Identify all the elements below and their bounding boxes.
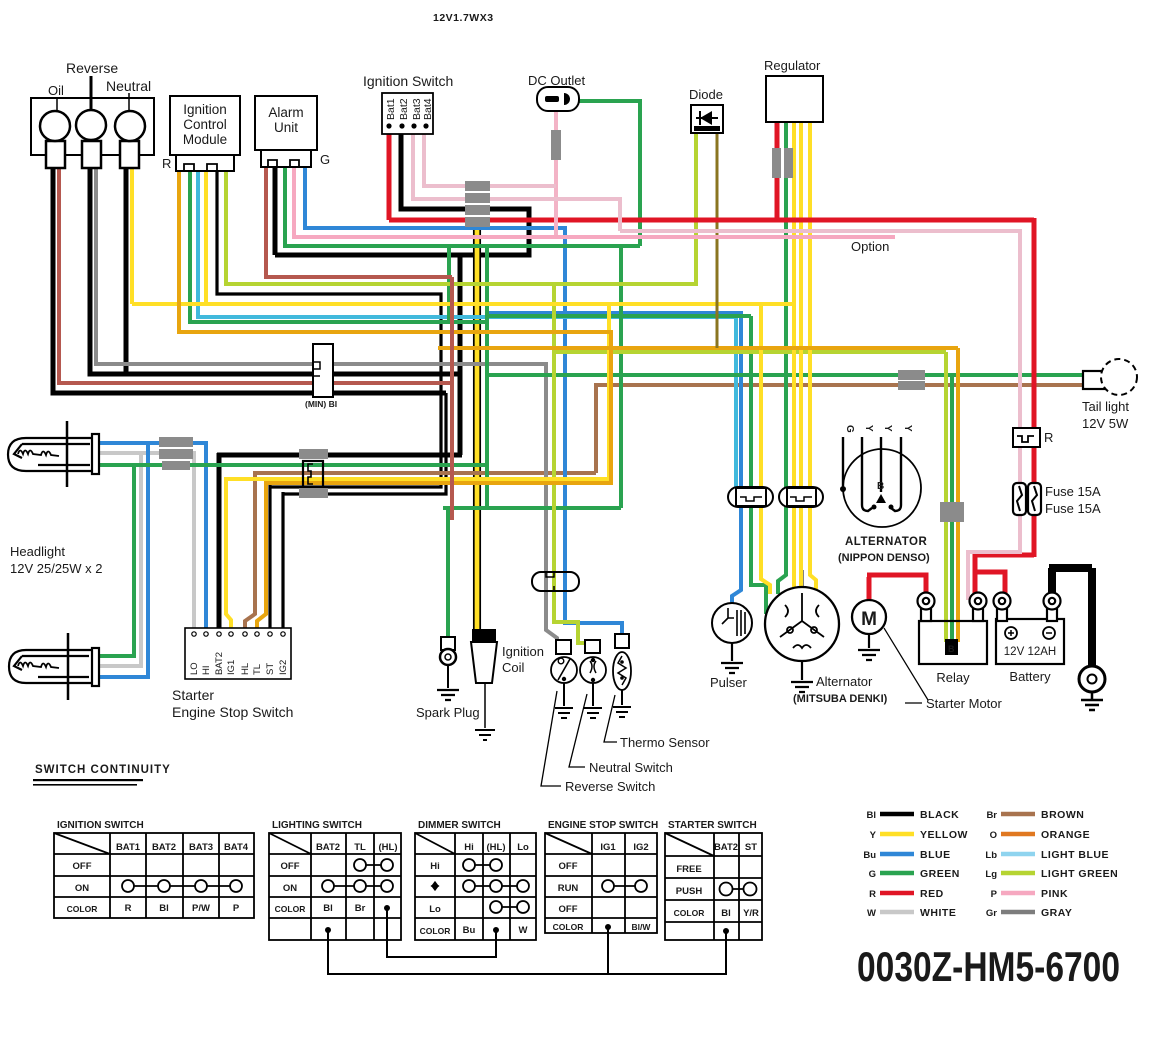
wire green branch to relay	[950, 375, 954, 652]
wire white headlight to LO pin	[97, 451, 194, 666]
svg-text:G: G	[869, 869, 876, 880]
svg-text:Bat1: Bat1	[385, 98, 397, 120]
svg-text:Hi: Hi	[464, 842, 474, 853]
ground mitsuba	[791, 661, 813, 692]
svg-text:(HL): (HL)	[487, 842, 506, 853]
svg-text:W: W	[867, 908, 876, 919]
neutral lamp	[120, 141, 139, 168]
connector gray stack on ignition switch lines	[465, 181, 490, 191]
svg-text:O: O	[990, 830, 997, 841]
battery	[996, 619, 1064, 664]
starter motor	[852, 600, 886, 634]
wire gray reverse-indicator to reverse switch	[96, 166, 557, 648]
wire green ignition-control-module x487	[190, 172, 487, 508]
wire light-green y350 to relay	[554, 352, 946, 642]
wire blue vertical x565 to thermo area	[565, 226, 622, 640]
svg-text:FREE: FREE	[676, 864, 701, 875]
svg-text:GREEN: GREEN	[920, 868, 960, 880]
wire yellow neutral-indicator and icm y304 main	[132, 166, 794, 304]
wire green x449 y316 to connector1	[449, 244, 766, 614]
starter engine stop switch connector	[185, 628, 291, 679]
wire dark-yellow icm y332 U to TL	[179, 172, 611, 628]
svg-text:IG2: IG2	[633, 842, 648, 853]
svg-text:12V 12AH: 12V 12AH	[1004, 646, 1056, 658]
svg-text:Bl: Bl	[721, 908, 731, 919]
svg-text:Bl: Bl	[323, 903, 333, 914]
neutral switch device	[585, 640, 600, 653]
svg-text:W: W	[519, 925, 528, 936]
svg-text:Fuse 15A: Fuse 15A	[1045, 484, 1101, 499]
svg-text:ENGINE STOP SWITCH: ENGINE STOP SWITCH	[548, 820, 658, 831]
svg-text:Lb: Lb	[985, 850, 997, 861]
svg-text:IG1: IG1	[600, 842, 616, 853]
svg-text:COLOR: COLOR	[553, 922, 584, 932]
leader neutral switch	[569, 694, 587, 767]
oil lamp	[46, 141, 65, 168]
svg-text:DIMMER SWITCH: DIMMER SWITCH	[418, 820, 501, 831]
svg-text:COLOR: COLOR	[67, 904, 98, 914]
svg-text:Lg: Lg	[985, 869, 997, 880]
svg-text:OFF: OFF	[559, 904, 578, 915]
svg-text:BAT2: BAT2	[152, 842, 176, 853]
svg-text:Bu: Bu	[863, 850, 876, 861]
svg-text:P/W: P/W	[192, 903, 210, 914]
svg-text:Bl: Bl	[867, 810, 877, 821]
pulser	[712, 603, 752, 643]
wire black ignition-control-module to ST thin	[217, 172, 441, 628]
svg-text:PINK: PINK	[1041, 888, 1068, 900]
ground pulser	[721, 643, 743, 673]
wire olive diode right leg	[716, 133, 719, 348]
fuse 15A upper	[1013, 483, 1026, 515]
svg-text:ST: ST	[745, 842, 757, 853]
thermo sensor device	[615, 634, 629, 648]
svg-text:B: B	[877, 481, 884, 492]
svg-text:Neutral: Neutral	[106, 78, 151, 94]
connector white pill on gray-lgreen-blue cluster	[532, 572, 579, 591]
ground starter motor	[858, 634, 880, 660]
svg-text:R: R	[869, 889, 876, 900]
svg-text:WHITE: WHITE	[920, 907, 956, 919]
svg-text:Alternator: Alternator	[816, 674, 873, 689]
svg-text:OFF: OFF	[559, 861, 578, 872]
svg-text:PUSH: PUSH	[676, 886, 703, 897]
svg-text:Lo: Lo	[429, 904, 441, 915]
svg-text:Br: Br	[986, 810, 997, 821]
svg-text:RED: RED	[920, 888, 944, 900]
svg-text:BAT4: BAT4	[224, 842, 249, 853]
svg-text:Gr: Gr	[986, 908, 997, 919]
wire black ignition-switch BAT2 thick	[275, 132, 529, 455]
wire green tail light y375	[487, 373, 1083, 377]
svg-text:Module: Module	[183, 132, 227, 147]
tail light	[1083, 371, 1105, 389]
svg-text:Lo: Lo	[517, 842, 529, 853]
svg-text:Fuse 15A: Fuse 15A	[1045, 501, 1101, 516]
svg-text:Bat4: Bat4	[422, 98, 434, 120]
svg-text:YELLOW: YELLOW	[920, 829, 968, 841]
connector white pill 2	[779, 487, 823, 507]
svg-text:TL: TL	[354, 842, 366, 853]
svg-text:B: B	[948, 644, 955, 654]
svg-text:COLOR: COLOR	[674, 908, 705, 918]
legend column 2	[985, 810, 997, 919]
connector gray on tail light brown	[898, 381, 925, 390]
svg-text:OFF: OFF	[281, 861, 300, 872]
svg-text:12V 5W: 12V 5W	[1082, 416, 1129, 431]
svg-text:Y: Y	[870, 830, 877, 841]
svg-text:Y/R: Y/R	[743, 908, 759, 919]
svg-text:Alarm: Alarm	[268, 105, 303, 120]
svg-text:P: P	[991, 889, 998, 900]
svg-text:Ignition: Ignition	[183, 102, 227, 117]
connector gray pair with white box on y455 y473	[299, 449, 328, 459]
wire black oil-indicator via y393 to IG2	[53, 166, 446, 393]
svg-text:Tail light: Tail light	[1082, 399, 1129, 414]
svg-text:Y: Y	[882, 425, 893, 432]
relay terminals	[918, 593, 987, 622]
svg-text:Oil: Oil	[48, 83, 64, 98]
relay	[919, 621, 987, 664]
leader thermo sensor	[604, 695, 617, 742]
wire pink dc-outlet drop	[554, 108, 558, 237]
svg-text:Unit: Unit	[274, 120, 298, 135]
svg-text:G: G	[844, 425, 855, 433]
wire light-green to neutral switch	[554, 282, 586, 645]
wire green regulator to alternator	[778, 122, 786, 594]
svg-text:Starter: Starter	[172, 687, 214, 703]
alternator nippon denso	[843, 449, 921, 527]
svg-text:Control: Control	[183, 117, 227, 132]
svg-text:R: R	[125, 903, 132, 914]
svg-text:(HL): (HL)	[379, 842, 398, 853]
svg-text:BAT3: BAT3	[189, 842, 213, 853]
leader reverse switch	[541, 691, 561, 786]
connector gray square on relay wires	[940, 502, 964, 522]
svg-text:Neutral Switch: Neutral Switch	[589, 760, 673, 775]
wire red main y220	[389, 122, 1034, 220]
svg-text:GRAY: GRAY	[1041, 907, 1072, 919]
connector gray on tail light green	[898, 370, 925, 380]
svg-text:BAT2: BAT2	[214, 652, 225, 675]
ignition coil	[472, 629, 496, 642]
wire light-green ignition-control-module y284 diode	[226, 133, 696, 284]
svg-text:P: P	[233, 903, 240, 914]
svg-text:Headlight: Headlight	[10, 544, 65, 559]
wire black-yellow to ignition coil	[474, 227, 480, 630]
svg-text:LIGHT GREEN: LIGHT GREEN	[1041, 868, 1118, 880]
svg-text:M: M	[861, 609, 877, 630]
wire red fuse to relay and battery	[975, 218, 1034, 598]
wire blue alarm-unit via y228 x635	[305, 168, 741, 497]
svg-text:Relay: Relay	[936, 670, 970, 685]
svg-text:Bl: Bl	[159, 903, 169, 914]
wire brown U to HL pin	[245, 383, 596, 628]
svg-text:12V 25/25W x 2: 12V 25/25W x 2	[10, 561, 103, 576]
svg-text:Diode: Diode	[689, 87, 723, 102]
wire pink dc-outlet y231 to fuse and relay	[620, 231, 1020, 600]
svg-text:IG2: IG2	[278, 660, 289, 675]
wire dark-yellow y348 to relay	[438, 348, 958, 642]
svg-text:LO: LO	[189, 662, 200, 675]
svg-text:ST: ST	[265, 663, 276, 675]
reverse switch device	[556, 640, 571, 654]
svg-text:IG1: IG1	[226, 660, 237, 675]
svg-text:BROWN: BROWN	[1041, 809, 1084, 821]
svg-text:0030Z-HM5-6700: 0030Z-HM5-6700	[857, 943, 1120, 990]
indicator lamp panel	[31, 98, 154, 155]
svg-text:(NIPPON DENSO): (NIPPON DENSO)	[838, 552, 930, 564]
fuse 15A lower	[1028, 483, 1041, 515]
wire pink alarm-unit option	[294, 168, 895, 237]
svg-text:(MITSUBA DENKI): (MITSUBA DENKI)	[793, 693, 888, 705]
wire blue connector to pulser	[732, 495, 741, 606]
svg-text:LIGHTING SWITCH: LIGHTING SWITCH	[272, 820, 362, 831]
svg-text:Engine Stop Switch: Engine Stop Switch	[172, 704, 293, 720]
svg-text:BAT1: BAT1	[116, 842, 141, 853]
svg-text:ON: ON	[283, 883, 297, 894]
wire red starter motor to relay	[867, 575, 926, 600]
connector white pill 1	[728, 487, 773, 507]
wire brown tail light lower	[596, 383, 1083, 387]
ignition control module	[170, 96, 240, 155]
svg-text:HI: HI	[201, 666, 212, 676]
wire black horizontal y455 to BAT2 pin	[217, 453, 462, 628]
svg-text:BLACK: BLACK	[920, 809, 959, 821]
svg-text:ORANGE: ORANGE	[1041, 829, 1090, 841]
alarm unit	[255, 96, 317, 150]
svg-text:R: R	[162, 156, 171, 171]
svg-text:Y: Y	[902, 425, 913, 432]
wire light-blue ignition-control-module y314	[198, 172, 736, 497]
svg-text:LIGHT BLUE: LIGHT BLUE	[1041, 849, 1109, 861]
svg-text:Pulser: Pulser	[710, 675, 748, 690]
svg-text:BAT2: BAT2	[316, 842, 340, 853]
svg-text:RUN: RUN	[558, 883, 579, 894]
svg-text:Reverse: Reverse	[66, 60, 118, 76]
svg-text:(MIN) BI: (MIN) BI	[305, 399, 337, 409]
svg-text:Battery: Battery	[1009, 669, 1051, 684]
wire black battery negative to ground ring	[1049, 568, 1092, 666]
svg-text:Thermo Sensor: Thermo Sensor	[620, 735, 710, 750]
svg-text:Regulator: Regulator	[764, 58, 821, 73]
ground ring battery	[1079, 666, 1105, 692]
headlight lower	[9, 633, 99, 700]
svg-text:Bu: Bu	[463, 925, 476, 936]
svg-text:SWITCH CONTINUITY: SWITCH CONTINUITY	[35, 764, 171, 776]
wire green x621 to spark plug run	[443, 244, 621, 639]
wire black alternator-mitsuba top stub	[801, 570, 804, 590]
connector gray pair on regulator wires	[772, 148, 781, 178]
reverse lamp	[82, 141, 101, 168]
svg-text:Coil: Coil	[502, 660, 525, 675]
wire black reverse+neutral indicators via y374 to BAT2	[90, 166, 460, 374]
wire yellow x761 to alternator	[761, 302, 770, 594]
svg-text:Starter Motor: Starter Motor	[926, 696, 1003, 711]
headlight upper	[8, 421, 99, 487]
svg-text:OFF: OFF	[73, 861, 92, 872]
svg-text:IGNITION SWITCH: IGNITION SWITCH	[57, 820, 144, 831]
svg-text:Option: Option	[851, 239, 889, 254]
svg-text:G: G	[320, 152, 330, 167]
svg-text:Hi: Hi	[430, 861, 440, 872]
svg-text:Bl/W: Bl/W	[632, 922, 652, 932]
wire green headlight feed y465	[97, 463, 487, 656]
svg-text:Reverse Switch: Reverse Switch	[565, 779, 655, 794]
wire dark-red alarm-unit and oil via x452	[59, 166, 452, 520]
svg-text:DC Outlet: DC Outlet	[528, 73, 585, 88]
wire green alarm-unit y246 to dc-outlet	[285, 101, 640, 246]
connector white R on red line	[1013, 428, 1040, 447]
svg-text:Bat2: Bat2	[398, 98, 410, 120]
svg-text:ALTERNATOR: ALTERNATOR	[845, 536, 927, 548]
svg-text:BAT2: BAT2	[714, 842, 738, 853]
svg-text:ON: ON	[75, 883, 89, 894]
connector white (MIN) BI	[313, 344, 333, 397]
alternator mitsuba	[765, 587, 839, 661]
svg-text:Ignition: Ignition	[502, 644, 544, 659]
legend column 1	[863, 810, 876, 919]
wire yellow U x609 to IG1	[226, 302, 609, 628]
svg-text:BLUE: BLUE	[920, 849, 951, 861]
spark plug	[441, 637, 455, 650]
table link lines	[387, 909, 496, 957]
svg-text:Ignition Switch: Ignition Switch	[363, 73, 453, 89]
wire blue headlight to HI pin	[97, 441, 206, 677]
connector gray headlight pills	[159, 437, 193, 447]
svg-text:STARTER SWITCH: STARTER SWITCH	[668, 820, 757, 831]
svg-text:COLOR: COLOR	[275, 904, 306, 914]
svg-text:COLOR: COLOR	[420, 926, 451, 936]
svg-text:HL: HL	[240, 663, 251, 675]
wire yellow regulator three down	[794, 122, 816, 594]
svg-text:Spark Plug: Spark Plug	[416, 705, 480, 720]
svg-text:TL: TL	[252, 664, 263, 675]
connector gray on dc outlet pink	[551, 130, 561, 160]
wire pink bat4 bat3	[413, 132, 620, 231]
svg-text:Y: Y	[863, 425, 874, 432]
svg-text:R: R	[1044, 430, 1053, 445]
svg-text:Br: Br	[355, 903, 366, 914]
svg-text:12V1.7WX3: 12V1.7WX3	[433, 12, 494, 24]
